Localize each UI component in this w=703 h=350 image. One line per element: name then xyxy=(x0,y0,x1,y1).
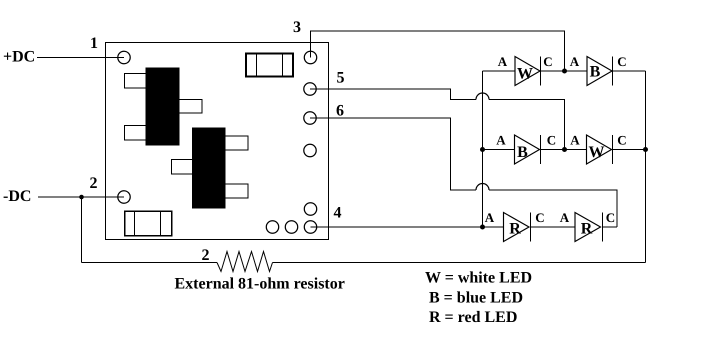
chip component (top, on-board resistor) xyxy=(246,54,293,77)
junction dot node -DC / resistor xyxy=(79,195,84,200)
svg-text:R: R xyxy=(581,221,593,238)
svg-text:A: A xyxy=(560,210,570,225)
svg-text:W: W xyxy=(589,144,605,161)
svg-text:W = white LED: W = white LED xyxy=(425,270,532,287)
transistor Q1 body xyxy=(146,68,179,145)
svg-text:+DC: +DC xyxy=(3,49,35,66)
wire 3 from pad 3 to row-1 mid node xyxy=(311,31,565,71)
transistor Q1 pad (left bottom) xyxy=(125,126,147,141)
wire junction to external resistor (down leg) xyxy=(81,197,83,263)
junction dot row2 cathode on bus xyxy=(643,147,648,152)
LED D1 (white, row 1 left) xyxy=(515,57,541,86)
spare pad (above pad 4) xyxy=(304,203,316,215)
transistor Q1 pad (right middle) xyxy=(179,100,202,114)
svg-text:C: C xyxy=(617,54,626,69)
junction dot row1 mid node (wire 3) xyxy=(562,69,567,74)
pad 4 xyxy=(304,221,316,233)
wire resistor left lead xyxy=(82,262,218,264)
wire row2 cathode lead xyxy=(613,149,646,151)
transistor Q1 pad (left top) xyxy=(125,74,147,89)
junction dot row2 mid node (wire 5) xyxy=(562,147,567,152)
svg-text:A: A xyxy=(485,210,495,225)
svg-text:A: A xyxy=(570,133,580,148)
wire row3 cathode lead xyxy=(603,226,618,228)
wire row1 cathode lead xyxy=(613,70,646,72)
svg-text:B: B xyxy=(517,144,528,161)
junction dot row2 anode on bus xyxy=(480,147,485,152)
LED D2 (blue, row 1 right) xyxy=(587,57,613,86)
pad 2 xyxy=(118,191,130,203)
wire row2 anode lead xyxy=(483,149,515,151)
LED D3 (blue, row 2 left) xyxy=(515,135,541,164)
wire -DC to pad 2 xyxy=(38,196,124,198)
svg-text:External 81-ohm resistor: External 81-ohm resistor xyxy=(175,276,345,293)
transistor Q2 pad (left middle) xyxy=(172,160,193,175)
svg-text:6: 6 xyxy=(336,103,344,120)
svg-text:C: C xyxy=(543,54,552,69)
svg-text:2: 2 xyxy=(90,175,98,192)
pad 6 xyxy=(304,112,316,124)
transistor Q2 pad (right top) xyxy=(225,136,248,150)
resistor R-ext zigzag (External 81-ohm resistor) xyxy=(217,252,273,272)
svg-text:W: W xyxy=(517,66,533,83)
spare pad (bottom row, left) xyxy=(266,221,278,233)
svg-text:5: 5 xyxy=(337,70,345,87)
svg-text:4: 4 xyxy=(334,205,342,222)
pad 1 xyxy=(118,51,130,63)
wire right cathode bus (vertical) xyxy=(645,71,647,263)
wire row1 anode lead xyxy=(483,70,516,72)
transistor Q2 body xyxy=(193,128,226,208)
wire row1 middle link xyxy=(541,70,587,72)
svg-text:C: C xyxy=(535,210,544,225)
wire row3 anode lead xyxy=(483,226,504,228)
svg-text:C: C xyxy=(617,133,626,148)
svg-text:2: 2 xyxy=(202,247,210,264)
wire resistor right lead to cathode bus xyxy=(273,262,646,264)
svg-text:A: A xyxy=(498,54,508,69)
svg-text:A: A xyxy=(570,54,580,69)
svg-text:R: R xyxy=(509,221,521,238)
svg-text:B: B xyxy=(590,64,601,81)
wire +DC to pad 1 xyxy=(37,57,124,59)
wire left anode bus (vertical) xyxy=(482,71,484,227)
wire 5 from pad 5 to row-2 mid node (hops over anode bus) xyxy=(310,89,565,150)
PCB board outline xyxy=(106,43,329,240)
wire row2 middle link xyxy=(541,149,587,151)
svg-text:R = red LED: R = red LED xyxy=(429,309,517,326)
pad 5 xyxy=(304,83,316,95)
wire row3 middle link xyxy=(531,226,576,228)
junction dot row3 anode on bus xyxy=(480,225,485,230)
svg-text:B = blue LED: B = blue LED xyxy=(429,290,523,307)
LED D5 (red, row 3 left) xyxy=(504,213,531,242)
svg-text:-DC: -DC xyxy=(3,188,31,205)
LED D4 (white, row 2 right) xyxy=(587,135,613,164)
chip component (bottom left, on-board resistor) xyxy=(125,211,172,236)
svg-text:3: 3 xyxy=(293,19,301,36)
wire 6 from pad 6 to row-3 cathode end (hops over anode bus) xyxy=(310,118,617,227)
LED D6 (red, row 3 right) xyxy=(575,213,603,242)
spare pad (unlabeled, mid right) xyxy=(304,144,316,156)
spare pad (bottom row, middle) xyxy=(285,221,297,233)
pad 3 xyxy=(304,51,316,63)
wire 4 from pad 4 to anode bus xyxy=(311,226,483,228)
svg-text:C: C xyxy=(547,133,556,148)
svg-text:1: 1 xyxy=(90,35,98,52)
transistor Q2 pad (right bottom) xyxy=(225,184,248,198)
svg-text:A: A xyxy=(496,133,506,148)
svg-text:C: C xyxy=(606,210,615,225)
